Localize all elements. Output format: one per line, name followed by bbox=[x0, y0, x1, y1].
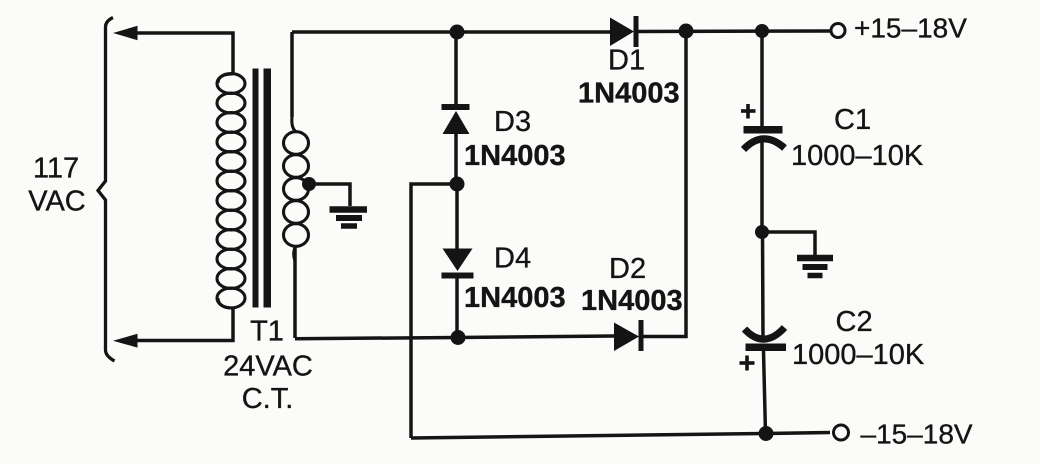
diode D3 bbox=[442, 104, 470, 110]
wire D4 anode lead bbox=[455, 184, 459, 249]
wire C1 bottom lead bbox=[760, 141, 764, 232]
capacitor C1 plus sign bbox=[741, 109, 756, 113]
svg-text:D3: D3 bbox=[494, 106, 531, 138]
node center tap bbox=[302, 177, 316, 191]
transformer core bbox=[253, 69, 259, 308]
svg-text:1N4003: 1N4003 bbox=[464, 282, 566, 314]
wire D2 cathode to plus rail bbox=[643, 31, 686, 337]
wire top rail bbox=[292, 30, 610, 34]
wire top primary lead bbox=[135, 33, 233, 74]
arrow top bbox=[113, 26, 138, 40]
wire to ground 2 bbox=[762, 232, 815, 255]
svg-text:C1: C1 bbox=[834, 104, 871, 136]
wire D3 cathode lead bbox=[454, 32, 458, 104]
wire C2 bottom lead bbox=[764, 351, 766, 434]
transformer T1 primary winding bbox=[218, 74, 233, 83]
svg-text:C2: C2 bbox=[836, 306, 873, 338]
svg-text:D1: D1 bbox=[608, 45, 645, 77]
svg-text:24VAC: 24VAC bbox=[223, 351, 313, 383]
svg-text:1N4003: 1N4003 bbox=[464, 140, 566, 172]
diode D4 bbox=[443, 249, 473, 272]
wire D3 anode lead bbox=[454, 134, 458, 184]
capacitor C2 plus sign bbox=[740, 361, 755, 365]
wire top rail right bbox=[638, 29, 830, 33]
node J3 C1 top bbox=[755, 24, 769, 38]
transformer T1 secondary winding bbox=[290, 32, 294, 117]
wire bottom primary lead bbox=[136, 308, 233, 341]
diode D2 bbox=[614, 323, 639, 352]
node J7 C2 bottom bbox=[759, 426, 774, 441]
ground symbol center tap bbox=[330, 206, 368, 213]
terminal +15-18V bbox=[831, 24, 845, 38]
svg-text:C.T.: C.T. bbox=[242, 383, 294, 415]
svg-text:T1: T1 bbox=[250, 316, 284, 348]
svg-text:D2: D2 bbox=[609, 253, 646, 285]
node J1 top secondary junction bbox=[450, 25, 465, 40]
capacitor C2 bbox=[745, 328, 785, 340]
brace 117VAC bbox=[98, 18, 115, 362]
svg-text:–15–18V: –15–18V bbox=[861, 419, 973, 450]
wire secondary bottom to D2 bbox=[295, 336, 614, 339]
wire D4 cathode lead bbox=[455, 278, 459, 337]
svg-text:1N4003: 1N4003 bbox=[578, 78, 680, 110]
svg-text:1000–10K: 1000–10K bbox=[792, 339, 925, 371]
svg-text:+15–18V: +15–18V bbox=[854, 13, 967, 44]
arrow bottom bbox=[113, 334, 138, 348]
terminal -15-18V bbox=[834, 425, 849, 440]
wire J4 to negative rail bbox=[411, 184, 457, 438]
wire center tap to ground 1 bbox=[309, 184, 350, 206]
svg-text:D4: D4 bbox=[494, 243, 531, 275]
node J6 ground junction bbox=[755, 225, 769, 239]
wire C2 top lead bbox=[761, 232, 765, 340]
svg-text:117: 117 bbox=[33, 153, 79, 185]
ground symbol right bbox=[797, 255, 833, 262]
capacitor C1 bbox=[744, 126, 783, 134]
wire C1 top lead bbox=[760, 31, 764, 126]
svg-text:1000–10K: 1000–10K bbox=[791, 140, 924, 172]
svg-text:VAC: VAC bbox=[28, 186, 85, 218]
node J4 D3/D4 junction bbox=[450, 177, 465, 192]
wire bottom negative rail bbox=[411, 433, 830, 439]
node J5 secondary bottom junction bbox=[451, 330, 466, 345]
diode D1 bbox=[610, 18, 634, 47]
svg-text:1N4003: 1N4003 bbox=[581, 285, 683, 317]
node J2 after D1 bbox=[679, 24, 694, 39]
